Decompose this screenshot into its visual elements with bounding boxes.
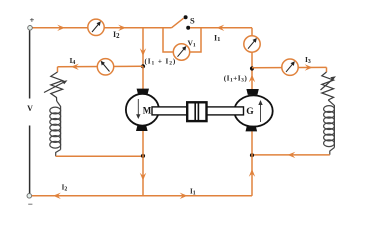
ammeter A4 <box>282 59 298 75</box>
wire arrow down <box>140 48 146 56</box>
wire voltmeter loop <box>163 28 201 52</box>
rheostat left arrowhead <box>62 80 68 84</box>
wire left shunt branch <box>58 65 144 68</box>
wire drop to motor junction <box>142 28 144 67</box>
wire arrow left right-bottom <box>288 152 296 158</box>
motor brush bottom <box>136 125 148 131</box>
motor M armature <box>126 94 159 126</box>
supply line V <box>29 31 31 99</box>
wire I3 branch <box>252 66 327 68</box>
wire right coil to generator bottom <box>252 154 330 156</box>
resistor rheostat right <box>321 72 334 100</box>
supply negative terminal <box>27 194 32 199</box>
node junction motor bottom branch <box>141 154 145 158</box>
node junction motor top <box>141 64 145 68</box>
wire corner down to rheostat <box>57 67 59 72</box>
svg-text:V: V <box>27 104 33 113</box>
motor brush top <box>137 89 149 95</box>
svg-text:M: M <box>143 106 152 116</box>
wire arrow up generator output <box>249 75 255 83</box>
inductor field coil right <box>324 100 335 155</box>
wire corner down right rheostat <box>326 67 328 72</box>
generator brush top <box>246 89 258 95</box>
wire generator bottom lead <box>251 131 253 196</box>
wire arrow down motor bottom <box>140 173 146 181</box>
shaft <box>152 107 244 115</box>
wire arrow right top2 <box>118 25 126 31</box>
ammeter A2 <box>97 59 113 75</box>
coupling box <box>187 102 206 121</box>
wire coil bottom to motor bottom branch <box>56 155 143 157</box>
motor rotation arrow down <box>136 99 140 119</box>
supply positive terminal <box>28 26 33 31</box>
svg-text:S: S <box>190 16 195 26</box>
generator G armature <box>234 95 272 126</box>
wire arrow left I4 <box>71 64 79 70</box>
wire top bus right <box>190 27 252 29</box>
wire arrow right I1 bottom <box>180 193 188 199</box>
ammeter A1 <box>88 19 104 35</box>
wire generator top lead <box>251 28 253 89</box>
svg-text:(I1+I3): (I1+I3) <box>224 73 248 83</box>
wire bottom bus <box>32 195 252 197</box>
wire arrow up generator bottom <box>249 169 255 177</box>
supply line V lower segment <box>29 126 31 194</box>
switch S blade <box>172 18 184 28</box>
rheostat right arrowhead <box>330 76 336 80</box>
wire top bus left <box>32 27 172 29</box>
svg-text:−: − <box>28 199 33 209</box>
generator brush bottom <box>246 126 258 132</box>
wire motor bottom lead <box>142 131 144 196</box>
ammeter A3 <box>244 36 260 52</box>
svg-text:+: + <box>30 15 35 25</box>
voltmeter V1 <box>173 44 189 60</box>
inductor field coil left <box>50 101 61 156</box>
generator rotation arrow up <box>258 100 262 122</box>
switch contact dot open <box>184 15 188 19</box>
switch contact dot fixed <box>186 26 190 30</box>
wire arrow left I1 top <box>217 25 225 31</box>
wire arrow right top1 <box>57 25 65 31</box>
svg-text:G: G <box>246 107 254 117</box>
wire motor top lead <box>142 66 144 89</box>
node junction generator bottom <box>250 153 254 157</box>
wire arrow left I2 bottom <box>53 193 61 199</box>
node junction generator top <box>250 66 254 70</box>
wire arrow right I3 <box>305 64 313 70</box>
resistor rheostat left <box>44 72 65 101</box>
